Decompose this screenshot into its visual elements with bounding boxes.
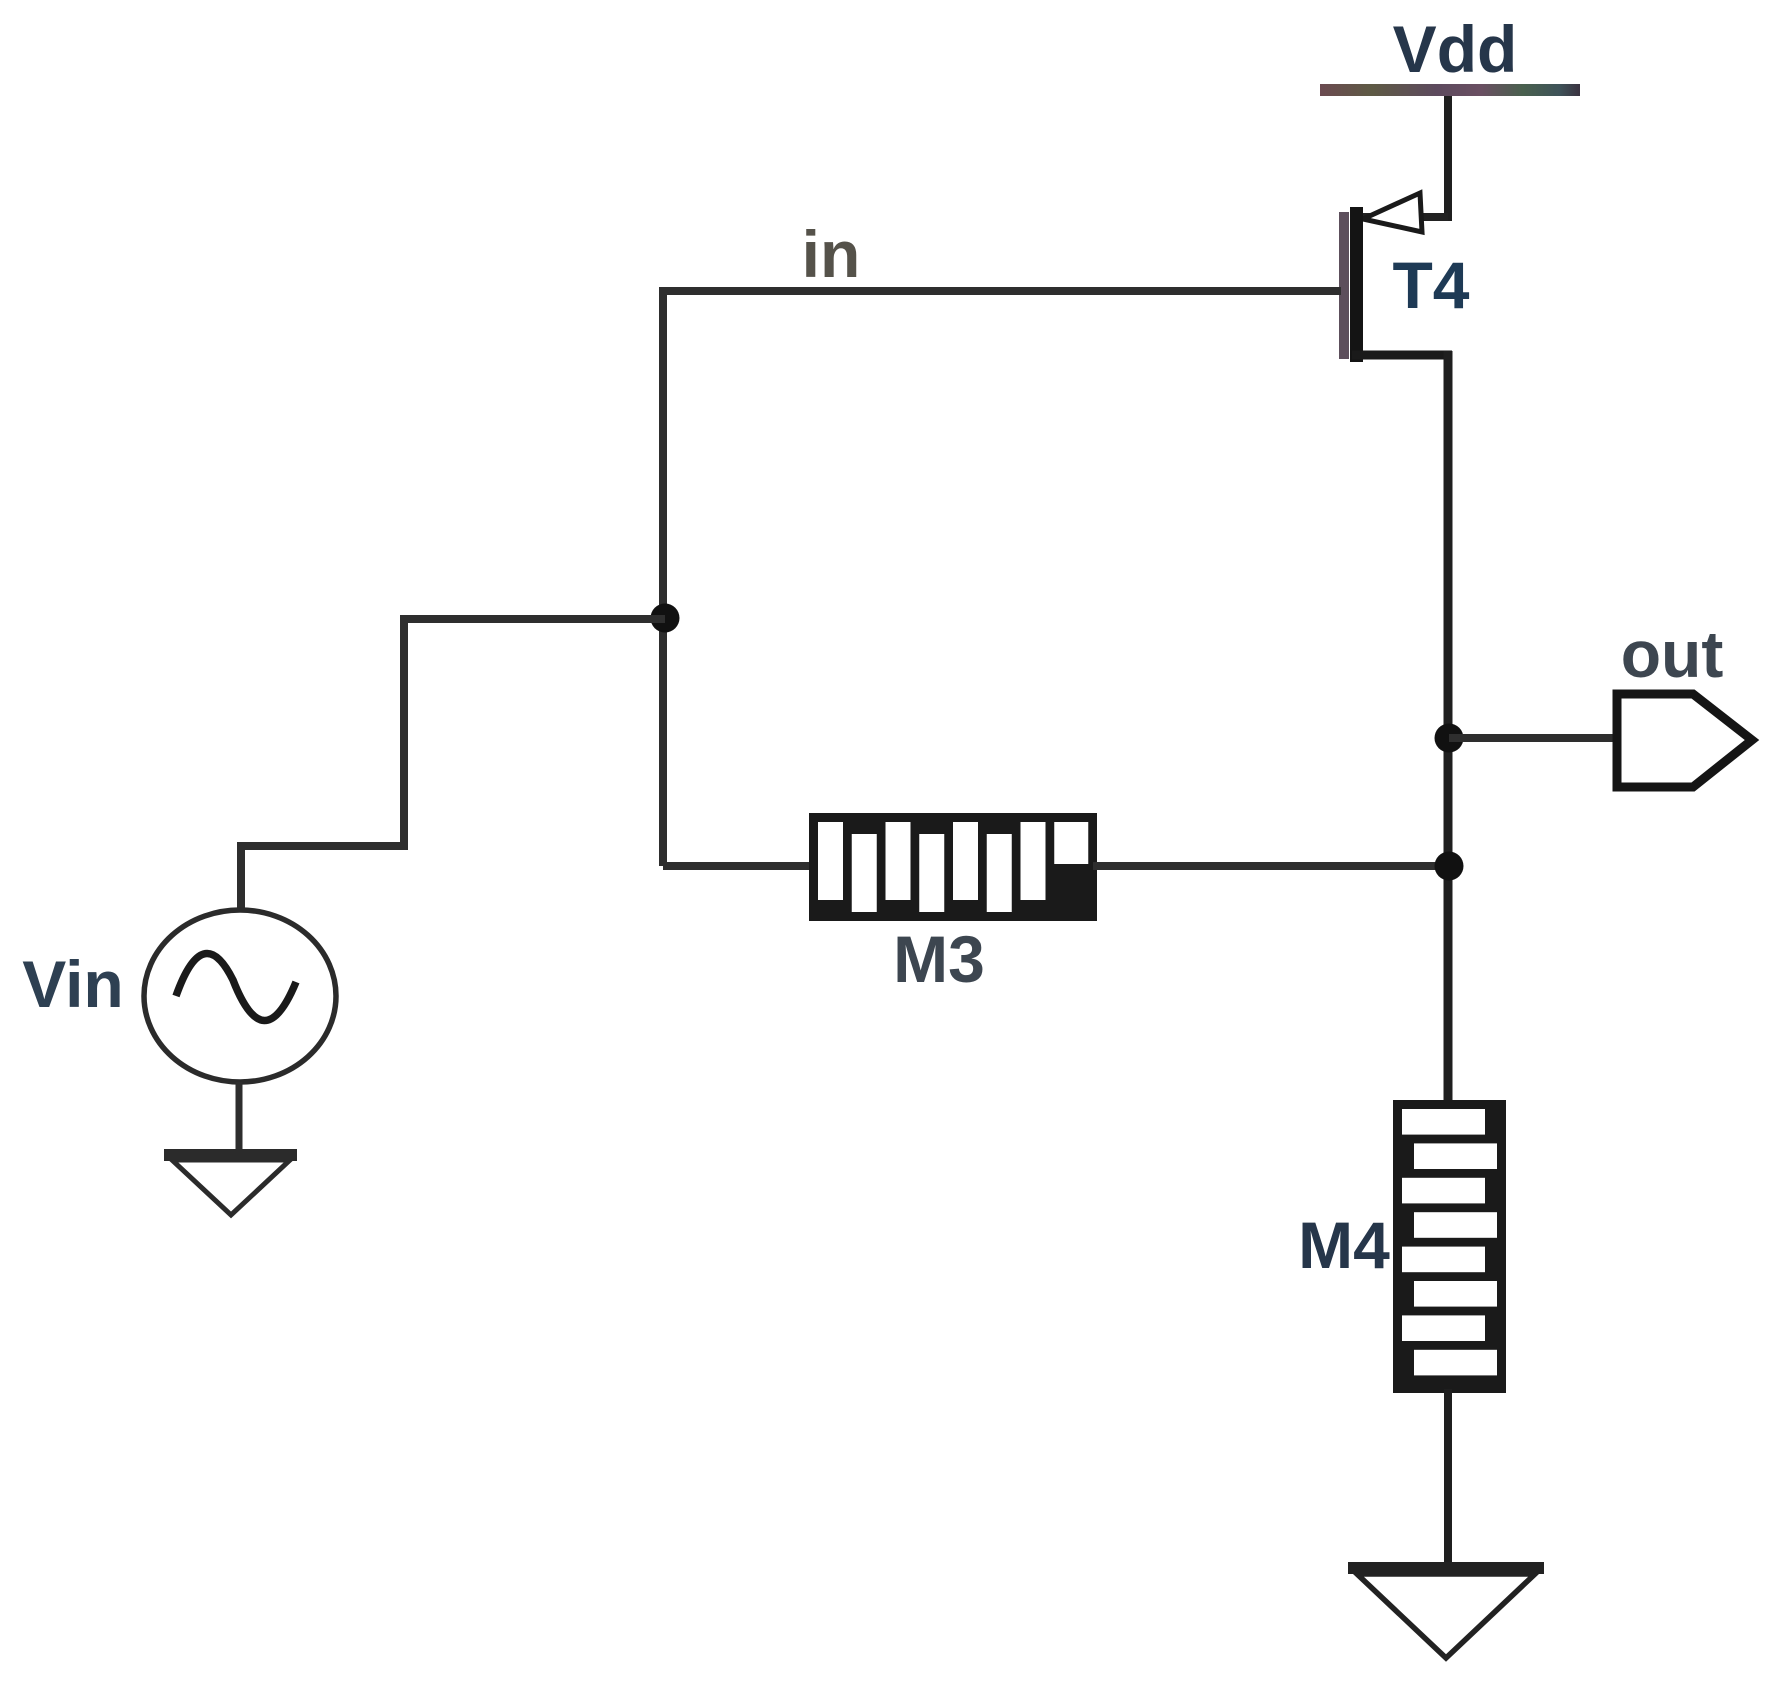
svg-text:M3: M3 [893, 922, 985, 996]
wire Vdd rail to T4 source [1444, 96, 1452, 221]
wire out node to out pin [1449, 734, 1620, 742]
label Vdd [1393, 12, 1518, 86]
out pin [1617, 694, 1752, 787]
svg-text:in: in [802, 217, 861, 291]
svg-text:T4: T4 [1392, 248, 1469, 322]
transistor T4 [1339, 193, 1452, 362]
wire in node to M3 [663, 862, 814, 870]
label Vin [22, 947, 123, 1021]
svg-text:out: out [1621, 617, 1724, 691]
ground (below M4) [1348, 1562, 1544, 1658]
node M3-M4 junction dot [1435, 852, 1464, 881]
node in (junction dot) [651, 604, 680, 633]
wire Vin source to ground [236, 1082, 243, 1154]
label out [1621, 617, 1724, 691]
wire M4 to ground [1444, 1389, 1452, 1567]
label M4 [1298, 1208, 1390, 1282]
wire M3 node down to M4 [1444, 866, 1453, 1104]
node out (junction dot) [1435, 724, 1464, 753]
label M3 [893, 922, 985, 996]
ground (below Vin) [164, 1149, 297, 1215]
wire Vin to in node (upper horizontal) [404, 615, 665, 623]
wire out node down to M3 node [1444, 738, 1453, 866]
memristor M3 [809, 813, 1097, 921]
svg-text:Vin: Vin [22, 947, 123, 1021]
voltage source Vin [144, 910, 336, 1082]
wire Vin step vertical [400, 615, 408, 846]
memristor M4 [1393, 1100, 1506, 1393]
svg-text:Vdd: Vdd [1393, 12, 1518, 86]
wire gate of T4 (net in) [659, 287, 1341, 295]
label in [802, 217, 861, 291]
power rail Vdd [1320, 84, 1580, 96]
wire T4 drain down to out node [1444, 351, 1453, 738]
wire M3 to M3 node [1093, 862, 1448, 870]
label T4 [1392, 248, 1469, 322]
wire in node vertical [659, 287, 667, 866]
wire Vin step horizontal [241, 842, 408, 850]
svg-text:M4: M4 [1298, 1208, 1390, 1282]
wire Vin source top lead [237, 842, 245, 912]
